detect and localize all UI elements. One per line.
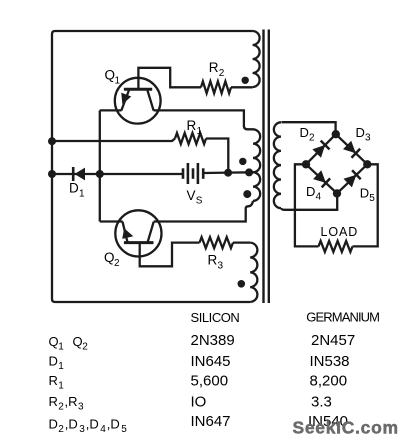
svg-text:2: 2	[114, 258, 120, 269]
diode D4	[313, 170, 330, 187]
svg-text:,D: ,D	[86, 416, 99, 431]
svg-text:1: 1	[79, 189, 85, 200]
svg-text:3: 3	[78, 402, 84, 413]
wire winding-bottom to R2	[231, 86, 253, 88]
node bridge right	[363, 160, 371, 168]
wire primary winding bottom to Q2 collector	[154, 201, 253, 222]
node bridge left	[302, 160, 310, 168]
node left rail D1 junction	[48, 170, 56, 178]
svg-text:3.3: 3.3	[311, 393, 332, 410]
resistor R1	[175, 133, 206, 144]
svg-text:R: R	[49, 394, 58, 409]
wire bridge arm bottom-right	[337, 164, 367, 193]
svg-text:Q: Q	[73, 334, 83, 349]
wire bridge arm left-top	[306, 134, 336, 164]
phase dot primary upper	[239, 158, 246, 165]
svg-text:4: 4	[100, 424, 106, 435]
transformer winding primary (center-tapped)	[253, 129, 260, 201]
phase dot top winding	[242, 77, 249, 84]
wire R1 tap from left rail	[53, 139, 175, 142]
wire outer box top	[52, 31, 253, 34]
svg-text:5: 5	[121, 424, 127, 435]
wire R3 to bottom feedback winding	[233, 241, 250, 243]
svg-text:V: V	[187, 188, 196, 203]
svg-text:D: D	[69, 181, 79, 196]
node left rail R1 junction	[48, 137, 56, 145]
svg-text:D: D	[49, 353, 58, 368]
transformer winding bottom feedback	[250, 243, 257, 302]
wire battery left lead with D1	[53, 173, 183, 175]
svg-text:R: R	[187, 118, 197, 133]
node bridge top	[332, 130, 340, 138]
watermark SeekIC.com	[293, 417, 399, 437]
svg-text:IN647: IN647	[191, 413, 231, 430]
svg-text:1: 1	[58, 361, 64, 372]
svg-text:2: 2	[309, 132, 315, 143]
svg-text:2: 2	[58, 402, 64, 413]
svg-text:R: R	[209, 60, 219, 75]
wire Q2 base to R3	[140, 243, 200, 267]
diode D5	[344, 170, 361, 187]
svg-text:IO: IO	[191, 393, 207, 410]
wire load loop right	[353, 164, 378, 246]
svg-text:1: 1	[197, 126, 203, 137]
svg-text:D: D	[360, 186, 369, 201]
wire battery to center tap of primary	[204, 171, 253, 174]
node primary center tap	[245, 168, 253, 176]
resistor R2	[201, 81, 231, 93]
svg-text:2N389: 2N389	[191, 332, 235, 349]
svg-text:5: 5	[369, 193, 375, 204]
wire secondary top to bridge top node	[281, 122, 335, 134]
svg-text:2: 2	[82, 341, 88, 352]
wire R2 to Q1 base	[138, 68, 201, 88]
wire Q1 emitter	[100, 109, 122, 111]
transistor Q1	[115, 78, 161, 124]
phase dot primary lower	[243, 190, 251, 198]
node battery / R1 junction	[224, 169, 232, 177]
svg-text:1: 1	[115, 75, 121, 86]
svg-text:,R: ,R	[65, 394, 78, 409]
svg-text:2N457: 2N457	[311, 332, 355, 349]
wire emitter rail	[99, 110, 101, 221]
svg-text:8,200: 8,200	[310, 372, 348, 389]
svg-text:3: 3	[79, 424, 85, 435]
svg-text:1: 1	[58, 341, 64, 352]
resistor R3	[200, 237, 234, 248]
wire R1 to center-tap junction	[206, 139, 228, 173]
wire Q2 emitter	[100, 220, 123, 222]
diode D3	[343, 141, 360, 158]
transformer winding top feedback	[253, 31, 260, 87]
diode D2	[312, 141, 329, 158]
svg-text:GERMANIUM: GERMANIUM	[306, 309, 379, 324]
wire Q1 collector to primary winding top	[154, 110, 254, 129]
svg-text:1: 1	[58, 381, 64, 392]
wire outer box bottom	[55, 301, 250, 303]
svg-text:D: D	[49, 416, 58, 431]
transformer winding secondary	[274, 122, 281, 208]
wire bridge arm left-bottom	[306, 164, 337, 193]
diode D1	[73, 167, 85, 181]
node emitter rail D1 junction	[96, 170, 104, 178]
svg-text:Q: Q	[49, 334, 59, 349]
wire load loop	[295, 164, 319, 246]
svg-text:SeekIC.com: SeekIC.com	[293, 417, 399, 437]
transistor Q2	[115, 210, 161, 256]
svg-text:3: 3	[218, 261, 224, 272]
resistor LOAD	[319, 241, 353, 252]
svg-text:Q: Q	[104, 250, 115, 265]
node bridge bottom	[333, 189, 341, 197]
wire secondary bottom to bridge bottom node	[281, 193, 337, 209]
phase dot bottom winding	[238, 280, 246, 288]
svg-text:5,600: 5,600	[191, 372, 229, 389]
transformer core	[264, 30, 269, 304]
svg-text:IN645: IN645	[191, 353, 231, 370]
battery VS	[183, 163, 203, 184]
svg-text:D: D	[306, 184, 315, 199]
svg-text:D: D	[300, 125, 309, 140]
svg-text:R: R	[49, 373, 58, 388]
svg-text:3: 3	[365, 132, 371, 143]
svg-text:SILICON: SILICON	[191, 310, 240, 325]
wire left rail	[52, 34, 55, 302]
svg-text:2: 2	[219, 68, 225, 79]
svg-text:R: R	[208, 253, 218, 268]
svg-text:2: 2	[58, 424, 64, 435]
svg-text:LOAD: LOAD	[321, 225, 359, 239]
svg-text:,D: ,D	[107, 416, 120, 431]
svg-text:4: 4	[316, 191, 322, 202]
svg-text:Q: Q	[105, 67, 116, 82]
wire bridge arm top-right	[336, 134, 368, 164]
svg-text:,D: ,D	[65, 416, 78, 431]
svg-text:S: S	[196, 196, 203, 207]
svg-text:IN538: IN538	[310, 353, 350, 370]
svg-text:D: D	[356, 125, 365, 140]
